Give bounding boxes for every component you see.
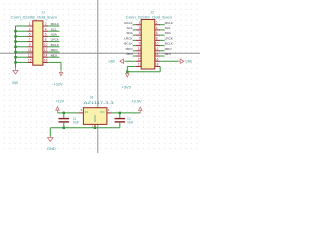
J2 pin 2: [155, 24, 160, 26]
capacitor C3: [119, 113, 121, 118]
svg-text:GND: GND: [185, 60, 192, 64]
svg-text:2: 2: [156, 21, 158, 25]
svg-text:+12V: +12V: [56, 100, 65, 104]
svg-text:4: 4: [45, 27, 47, 31]
wire J2 pin 12: [160, 50, 164, 52]
junction C2 / GND rail: [63, 127, 65, 129]
wire J2 pin 4: [160, 29, 164, 31]
svg-text:3: 3: [80, 108, 82, 112]
svg-text:SCL: SCL: [165, 26, 172, 30]
wire J2 pin 18 to +3V3: [159, 66, 161, 71]
J2 pin 8: [155, 39, 160, 41]
capacitor C2: [63, 113, 65, 118]
svg-text:14: 14: [44, 53, 48, 57]
wire J1 pin 16 to +12V: [48, 61, 61, 63]
power symbol +12V (at J1 pin 16): [60, 70, 62, 72]
J1 pin 4: [43, 30, 48, 32]
J2 pin 16: [155, 60, 160, 62]
ground symbol GND (below J1): [15, 68, 17, 71]
connector J2 body: [141, 20, 155, 70]
wire J1 pin 11 to GND column: [16, 51, 28, 53]
wire J2 pin 15 to GND flag: [126, 60, 136, 62]
U3 pin 1 (GND): [94, 124, 96, 127]
svg-text:3: 3: [139, 26, 141, 30]
wire J1 pin 14: [48, 56, 59, 58]
svg-text:MDI: MDI: [51, 53, 57, 57]
J1 pin 10: [43, 46, 48, 48]
J2 pin 3: [136, 29, 141, 31]
svg-text:13: 13: [28, 53, 32, 57]
grid dots: [4, 4, 198, 148]
junction J1 row pin 11: [14, 51, 16, 53]
wire GND rail: [50, 127, 120, 129]
wire J1 pin 6: [48, 35, 59, 37]
wire J1 pin 4: [48, 30, 59, 32]
J1 pin 5: [28, 35, 33, 37]
J1 pin 9: [28, 46, 33, 48]
J2 pin 4: [155, 29, 160, 31]
svg-text:MCLK: MCLK: [165, 21, 173, 25]
svg-text:6: 6: [156, 31, 158, 35]
wire J1 pin 9 to GND column: [16, 46, 28, 48]
svg-text:18: 18: [155, 63, 159, 67]
junction J1 row pin 9: [14, 46, 16, 48]
svg-text:10uF: 10uF: [73, 120, 79, 124]
svg-text:MDO: MDO: [126, 47, 134, 51]
wire J2 pin 9: [133, 45, 136, 47]
svg-text:LRCK: LRCK: [165, 36, 173, 40]
junction J1 row pin 15: [14, 61, 16, 63]
U3 pin 3 (IN): [78, 112, 83, 114]
svg-text:+3.3V: +3.3V: [131, 100, 142, 104]
wire J1 pin 10: [48, 46, 59, 48]
J1 pin 11: [28, 51, 33, 53]
J1 pin 13: [28, 56, 33, 58]
svg-text:+3V3: +3V3: [122, 85, 131, 89]
J2 pin 1: [136, 24, 141, 26]
connector J1 body: [33, 21, 43, 65]
svg-text:GND: GND: [93, 114, 97, 122]
svg-text:2: 2: [108, 108, 110, 112]
wire J2 pin 10: [160, 45, 164, 47]
svg-text:LRCK: LRCK: [124, 36, 132, 40]
wire J1 pin 8: [48, 41, 59, 43]
power symbol +12V (regulator input): [57, 110, 59, 113]
svg-text:3: 3: [29, 27, 31, 31]
wire J1 pin 3 to GND column: [16, 30, 28, 32]
wire J2 pin 14: [160, 55, 164, 57]
J1 pin 3: [28, 30, 33, 32]
svg-text:IN: IN: [85, 110, 88, 114]
svg-text:SCL: SCL: [51, 27, 58, 31]
wire J2 pin 7: [133, 39, 136, 41]
svg-text:8: 8: [156, 36, 158, 40]
ground symbol GND (regulator rail): [49, 136, 51, 138]
svg-text:7: 7: [139, 36, 141, 40]
svg-text:U3: U3: [90, 96, 94, 100]
J2 pin 7: [136, 39, 141, 41]
junction J1 row pin 5: [14, 35, 16, 37]
J2 pin 17: [136, 65, 141, 67]
wire +12V to U3 IN: [58, 112, 79, 114]
wire J1 pin 7 to GND column: [16, 41, 28, 43]
svg-text:LRCK: LRCK: [51, 38, 59, 42]
J1 pin 8: [43, 41, 48, 43]
svg-text:1: 1: [29, 22, 31, 26]
wire J2 pin 6: [160, 34, 164, 36]
J2 pin 5: [136, 34, 141, 36]
J1 left GND column wire: [15, 26, 17, 68]
svg-text:5: 5: [139, 31, 141, 35]
svg-text:MDI: MDI: [126, 52, 132, 56]
J2 pin 18: [155, 65, 160, 67]
U3 pin 2 (VO): [107, 112, 112, 114]
svg-text:MCLK: MCLK: [51, 22, 59, 26]
svg-text:12: 12: [155, 47, 159, 51]
wire J2 pin 16 to GND flag: [160, 60, 178, 62]
junction C3 / output rail: [119, 112, 121, 114]
J2 pin 11: [136, 50, 141, 52]
svg-text:AZ1117-3.3: AZ1117-3.3: [84, 101, 114, 105]
J1 pin 14: [43, 56, 48, 58]
svg-text:GND: GND: [109, 60, 116, 64]
J2 pin 13: [136, 55, 141, 57]
svg-text:1: 1: [139, 21, 141, 25]
wire J2 pin 13: [133, 55, 136, 57]
junction J1 row pin 3: [14, 30, 16, 32]
wire U3 VO to +3.3V: [112, 112, 141, 114]
svg-text:11: 11: [28, 48, 32, 52]
wire J1 pin 13 to GND column: [16, 56, 28, 58]
wire J2 pin 3: [133, 29, 136, 31]
wire J1 pin 2: [48, 25, 59, 27]
svg-text:MDO: MDO: [165, 47, 173, 51]
svg-text:VO: VO: [100, 110, 105, 114]
svg-text:8: 8: [45, 38, 47, 42]
svg-text:13: 13: [138, 52, 142, 56]
svg-text:16: 16: [44, 59, 48, 63]
svg-text:15: 15: [28, 59, 32, 63]
svg-text:12: 12: [44, 48, 48, 52]
J1 pin 15: [28, 61, 33, 63]
wire J2 pin 2: [160, 24, 164, 26]
svg-text:17: 17: [138, 63, 142, 67]
svg-text:9: 9: [29, 43, 31, 47]
svg-text:MCLK: MCLK: [124, 21, 132, 25]
wire J1 pin 12: [48, 51, 59, 53]
wire J1 pin 15 to GND column: [16, 61, 28, 63]
svg-text:Conn_02x09_Odd_Even: Conn_02x09_Odd_Even: [126, 16, 172, 20]
wire J2 pin 8: [160, 39, 164, 41]
regulator U3 body: [83, 108, 107, 125]
svg-text:GND: GND: [12, 81, 19, 85]
J1 pin 7: [28, 41, 33, 43]
svg-text:14: 14: [155, 52, 159, 56]
svg-text:MDI: MDI: [165, 52, 171, 56]
svg-text:BCLK: BCLK: [165, 42, 173, 46]
svg-text:SDA: SDA: [51, 33, 57, 37]
svg-text:9: 9: [139, 42, 141, 46]
power symbol +3.3V: [139, 110, 141, 113]
ground symbol GND (right of J2): [178, 60, 180, 62]
wire +3V3 bottom run: [127, 71, 160, 73]
wire J1 pin 1 to GND column: [16, 25, 28, 27]
svg-text:16: 16: [155, 57, 159, 61]
svg-text:BCLK: BCLK: [124, 42, 132, 46]
svg-text:2: 2: [45, 22, 47, 26]
wire J2 pin 1: [133, 24, 136, 26]
junction +12V / C2: [63, 112, 65, 114]
svg-text:11: 11: [138, 47, 142, 51]
svg-text:SDA: SDA: [126, 31, 132, 35]
svg-text:Conn_02x08_Odd_Even: Conn_02x08_Odd_Even: [11, 16, 58, 20]
svg-text:10: 10: [44, 43, 48, 47]
svg-text:10uF: 10uF: [127, 120, 133, 124]
svg-text:7: 7: [29, 38, 31, 42]
J2 pin 10: [155, 45, 160, 47]
svg-text:10: 10: [155, 42, 159, 46]
junction J1 row pin 13: [14, 56, 16, 58]
svg-text:J2: J2: [151, 11, 154, 15]
svg-text:SDA: SDA: [165, 31, 171, 35]
J1 pin 12: [43, 51, 48, 53]
svg-text:5: 5: [29, 33, 31, 37]
J1 pin 16: [43, 61, 48, 63]
J2 pin 12: [155, 50, 160, 52]
J1 pin 6: [43, 35, 48, 37]
J2 pin 14: [155, 55, 160, 57]
svg-text:6: 6: [45, 33, 47, 37]
svg-text:+12V: +12V: [54, 82, 64, 86]
wire J2 pin 5: [133, 34, 136, 36]
J2 pin 6: [155, 34, 160, 36]
cursor crosshair: [0, 52, 200, 54]
J2 pin 15: [136, 60, 141, 62]
svg-text:MDO: MDO: [51, 48, 59, 52]
svg-text:J1: J1: [42, 11, 45, 15]
svg-text:15: 15: [138, 57, 142, 61]
svg-text:SCL: SCL: [126, 26, 133, 30]
wire J1 pin 5 to GND column: [16, 35, 28, 37]
wire J2 pin 11: [133, 50, 136, 52]
junction U3 GND pin / rail: [94, 127, 96, 129]
ground symbol GND (left of J2): [124, 60, 126, 62]
svg-text:4: 4: [156, 26, 158, 30]
svg-text:BCLK: BCLK: [51, 43, 59, 47]
svg-text:GND: GND: [47, 147, 56, 151]
junction +3V3: [126, 71, 128, 73]
J1 pin 1: [28, 25, 33, 27]
J1 pin 2: [43, 25, 48, 27]
wire J2 pin 17 to +3V3: [127, 65, 136, 67]
J2 pin 9: [136, 45, 141, 47]
junction J1 row pin 7: [14, 40, 16, 42]
power symbol +3V3: [126, 72, 128, 74]
